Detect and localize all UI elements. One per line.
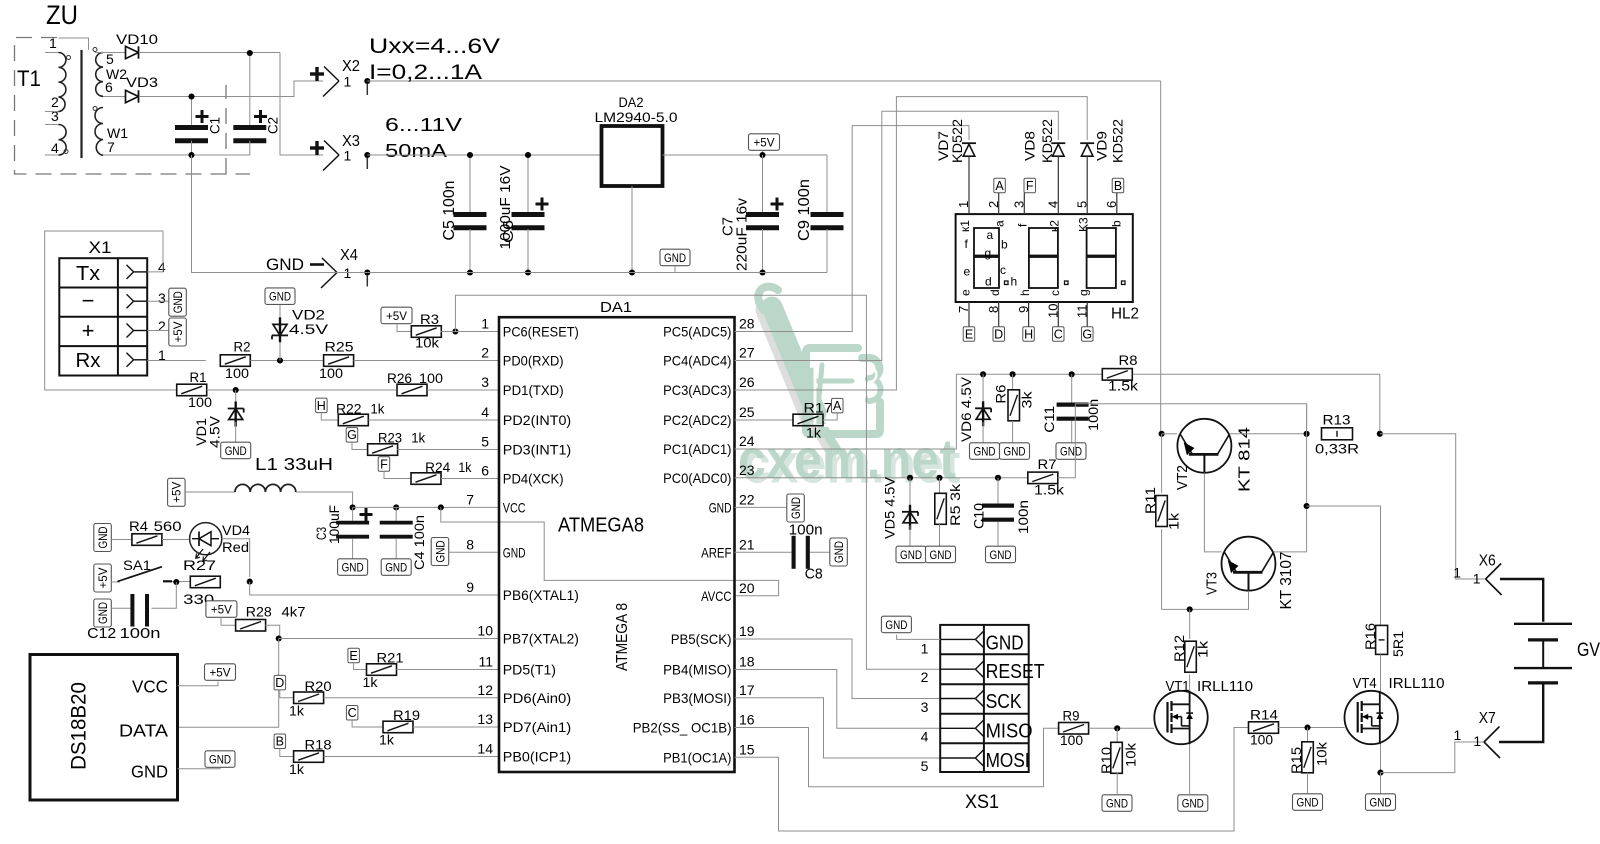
power label GND DA1 pin8 [431,538,449,566]
node C10 [995,475,1001,481]
svg-text:1k: 1k [370,402,384,417]
XS1 pin 5 MOSI [940,757,975,759]
wire X1 pin2 [147,330,169,332]
wire R25 to DA1 pin2 [354,360,499,362]
wire battery to X7 [1499,683,1543,742]
svg-text:18: 18 [739,654,755,670]
diode VD10 [126,46,139,58]
svg-text:Rx: Rx [76,350,101,372]
svg-text:IRLL110: IRLL110 [1197,678,1253,695]
capacitor C5 [469,155,471,212]
svg-text:1: 1 [1453,564,1461,580]
wire X6 to battery [1500,579,1543,622]
svg-text:3: 3 [481,374,489,390]
svg-text:14: 14 [477,741,493,757]
letter tag F above HL2 [1024,178,1036,193]
svg-text:a: a [987,228,994,242]
svg-text:E: E [965,327,973,341]
power block ZU dashed outline [15,38,251,175]
wire GND to DA1 pin8 [449,551,499,553]
svg-text:15: 15 [739,741,755,757]
svg-text:22: 22 [739,491,755,507]
power label GND below C3 [338,559,368,576]
wire GND to C12 [111,607,131,609]
svg-text:23: 23 [739,462,755,478]
wire X3 to DA2 input [367,154,601,156]
wire R13 node to X6 [1380,434,1486,579]
svg-text:KD522: KD522 [1110,119,1125,163]
svg-text:3: 3 [51,108,59,124]
svg-text:PB6(XTAL1): PB6(XTAL1) [503,587,579,603]
svg-text:GND: GND [974,444,996,458]
svg-text:R15: R15 [1289,747,1304,774]
wire DS VCC [178,681,219,685]
svg-text:e: e [959,289,973,296]
svg-text:GND: GND [225,444,247,458]
XS1 pin 4 MISO [940,727,975,729]
svg-text:10k: 10k [1123,743,1138,767]
wire node to R12 [1189,609,1191,639]
svg-text:−: − [82,288,95,313]
transistor VT4 IRLL110 [1345,691,1398,744]
letter tag A above HL2 [994,178,1006,193]
resistor R9 100 [1059,723,1089,735]
capacitor C2 [249,53,251,125]
svg-text:g: g [1077,289,1091,296]
power label GND XS1 pin1 [881,616,911,633]
wire R8 to R13 node [1133,374,1380,434]
svg-text:H: H [1024,327,1033,341]
svg-text:R4: R4 [129,519,149,534]
resistor R17 [793,414,823,426]
transistor VT1 IRLL110 [1154,691,1207,744]
svg-text:GND: GND [885,618,907,632]
wire B to R18 [280,749,294,757]
power label GND X1 pin3 [169,288,187,316]
wire AREF to C8 [735,551,792,553]
svg-text:1k: 1k [411,431,425,446]
svg-text:7: 7 [107,139,115,155]
connector X2 [310,72,324,75]
node VD5 [907,475,913,481]
regulator DA2 LM2940-5.0 [602,126,663,186]
resistor R3 [411,326,441,338]
wire VT3 collector to node [1274,404,1307,552]
power label GND below R15 [1293,794,1323,811]
wire +5V to R28 [221,617,236,625]
capacitor C1 [191,97,193,126]
wire DA1 pin22 GND [735,506,788,508]
wire R4 to LED [162,539,190,541]
svg-text:GND: GND [96,526,110,548]
svg-text:A: A [995,179,1004,193]
wire PC2 to R17 [735,419,794,421]
resistor R21 [367,664,397,676]
svg-text:VD6 4.5V: VD6 4.5V [959,377,974,442]
resistor R13 0.33R [1322,428,1353,440]
svg-text:PD4(XCK): PD4(XCK) [503,471,564,487]
power label GND below C4 [381,559,411,576]
svg-text:KD522: KD522 [1040,119,1055,163]
resistor R26 [397,384,427,396]
connector X6 [1486,564,1502,580]
svg-text:GND: GND [709,499,732,515]
svg-text:11: 11 [1074,305,1089,319]
capacitor C12 100n [130,594,134,627]
capacitor C9 [826,155,828,212]
svg-text:R24: R24 [425,460,450,475]
svg-text:10k: 10k [415,336,439,351]
wire PB4 MISO to XS1 [735,670,941,729]
svg-text:6: 6 [481,463,489,479]
svg-text:25: 25 [739,404,755,420]
node C1 top [188,93,194,99]
node VT2 emitter rail [1159,431,1165,437]
wire R26 to DA1 pin3 [427,389,499,391]
zener VD1 4.5V [235,390,237,404]
svg-text:PD5(T1): PD5(T1) [503,662,556,678]
svg-text:GND: GND [1060,444,1082,458]
resistor R8 1.5k [1102,369,1132,381]
wire G to R23 [352,442,368,450]
svg-text:10k: 10k [1314,742,1329,766]
svg-text:GND: GND [131,762,168,782]
IC DA1 ATMEGA8 [499,317,735,772]
svg-text:1.5k: 1.5k [1034,483,1064,498]
svg-text:28: 28 [739,316,755,332]
node C7 bottom [759,269,765,275]
svg-text:DA1: DA1 [600,299,632,316]
power label +5V for R3 [381,307,412,324]
svg-text:7: 7 [956,306,971,313]
svg-text:h: h [1018,289,1032,296]
svg-text:PB5(SCK): PB5(SCK) [671,631,732,647]
wire X2 rail to right side [367,80,1160,82]
svg-text:100n: 100n [1016,500,1031,534]
svg-text:B: B [276,735,284,749]
svg-text:KT 3107: KT 3107 [1278,551,1295,609]
resistor R12 1k [1185,641,1197,672]
svg-text:X4: X4 [340,247,358,264]
svg-text:g: g [985,246,992,260]
power label +5V main [749,134,780,151]
wire R2 to R25 [250,360,324,362]
svg-text:c: c [1000,263,1006,277]
svg-text:T1: T1 [17,66,41,91]
node C2 top [247,50,253,56]
svg-text:R20: R20 [305,679,332,694]
svg-text:R5 3k: R5 3k [948,484,963,526]
power label GND above VD2 [265,288,295,305]
resistor R24 [411,473,441,485]
transformer T1 primary [59,53,66,112]
svg-text:VD4: VD4 [222,523,251,538]
svg-text:R13: R13 [1323,413,1351,428]
svg-text:IRLL110: IRLL110 [1389,675,1445,692]
svg-text:cxem.net: cxem.net [738,427,956,490]
connector XS1 [940,625,1028,772]
svg-text:F: F [1026,179,1034,193]
svg-text:24: 24 [739,433,755,449]
resistor R18 [294,751,324,763]
power label GND below C10 [986,546,1016,563]
wire +5V to L1 [185,491,235,493]
svg-text:10: 10 [1046,304,1061,318]
diode VD3 [126,90,139,102]
svg-text:1: 1 [344,148,352,164]
wire VT4 source [1380,744,1382,772]
resistor R20 [294,692,324,704]
svg-text:5: 5 [106,51,114,67]
svg-text:R26: R26 [387,371,412,386]
svg-text:100: 100 [1250,733,1273,748]
svg-text:VCC: VCC [503,499,526,515]
resistor R2 [220,355,250,367]
XS1 pin 2 RESET [940,668,975,670]
power label GND below VD6 [970,443,1000,460]
svg-text:20: 20 [739,580,755,596]
svg-text:R12: R12 [1172,635,1187,662]
svg-text:AVCC: AVCC [701,588,731,604]
svg-text:VD5 4.5V: VD5 4.5V [882,477,897,539]
svg-text:VD3: VD3 [126,75,158,90]
wire DA2 output to +5V node [663,154,828,156]
HL2 digit 2 [1029,228,1058,256]
wire VD4 to R27 node [222,539,250,577]
wire T1 pin1 [45,52,59,54]
node VD2 [277,357,283,363]
wire R16 to VT4 drain [1380,655,1382,691]
svg-text:+5V: +5V [170,482,184,503]
svg-text:1k: 1k [379,733,394,748]
svg-text:100: 100 [225,366,249,381]
wire R27 node down to pin9 line [250,582,499,595]
wire VT4 source to GND [1380,773,1382,794]
letter tag D [274,675,286,690]
wire R14 to VT4 gate [1278,727,1344,729]
svg-text:1k: 1k [1166,513,1181,530]
svg-text:4: 4 [481,404,489,420]
svg-text:PD0(RXD): PD0(RXD) [503,353,564,369]
resistor R27 [190,576,220,588]
node DATA [276,635,282,641]
svg-text:GND: GND [1106,796,1128,810]
zener VD2 4.5V [279,304,281,321]
capacitor C3 100uF [352,507,354,520]
svg-text:GND: GND [986,632,1024,654]
wire VT4 source to X7 [1381,742,1485,773]
resistor R6 3k [1012,374,1014,390]
svg-text:12: 12 [477,682,493,698]
wire R17 to tag A [823,413,837,421]
svg-text:GND: GND [990,548,1012,562]
wire VT1 source to GND [1189,744,1191,794]
svg-text:VT4: VT4 [1353,675,1377,692]
wire VT2 base to VT3 emitter [1204,473,1221,552]
svg-text:4.5V: 4.5V [289,322,328,337]
wire R22 to DA1 pin4 [368,419,499,421]
HL2 bottom letter tags E D H C G [963,327,975,342]
wire X1 pin1 to R2 [147,360,206,362]
node X2 [364,78,370,84]
wire R3 to DA1 pin1 [441,331,500,333]
svg-text:+5V: +5V [754,135,775,149]
svg-text:PB0(ICP1): PB0(ICP1) [503,749,571,765]
wire R7 to VT base node [1058,404,1307,478]
svg-text:C11: C11 [1042,406,1057,433]
svg-text:R7: R7 [1038,457,1057,472]
wire T1 pin2 [45,111,59,113]
svg-text:GND: GND [789,497,803,519]
svg-text:C2: C2 [265,117,280,134]
svg-text:H: H [317,399,326,413]
svg-text:R11: R11 [1143,487,1158,514]
svg-text:R21: R21 [377,651,404,666]
diode VD7 KD522 [962,142,976,144]
diode VD8 KD522 [1051,142,1065,144]
wire PB2 to R9 gate line [735,728,1059,787]
svg-text:VD2: VD2 [292,308,325,323]
wire +5V to R3 [397,324,412,332]
resistor R10 10k [1116,728,1118,743]
svg-text:1k: 1k [289,703,304,718]
sensor DS18B20 [30,655,178,801]
svg-text:GND: GND [266,255,304,274]
svg-text:0,33R: 0,33R [1315,442,1359,457]
svg-text:X1: X1 [89,238,112,257]
resistor R4 [132,534,162,546]
svg-text:R18: R18 [305,738,332,753]
node C6 top [525,152,531,158]
svg-text:GND: GND [171,291,185,313]
svg-text:d: d [985,275,992,289]
node R10 [1114,725,1120,731]
svg-text:GND: GND [1182,796,1204,810]
wire R24 to DA1 pin6 [441,478,499,480]
svg-text:GND: GND [930,548,952,562]
node VCC branch [438,504,444,510]
svg-text:+: + [82,318,95,343]
wire VT1 drain to R12 [1189,674,1191,690]
resistor R1 [177,384,207,396]
svg-text:C5 100n: C5 100n [441,181,458,241]
svg-text:1: 1 [1454,727,1462,743]
resistor R7 1.5k [1028,472,1058,484]
svg-text:6: 6 [105,79,113,95]
power label GND below R6 [1000,443,1030,460]
svg-text:1: 1 [1473,733,1481,749]
resistor R15 10k [1307,728,1309,743]
svg-text:PB2(SS_ OC1B): PB2(SS_ OC1B) [633,720,732,736]
zener VD6 4.5V [982,374,984,404]
svg-text:b: b [1110,220,1124,227]
svg-text:h: h [1011,275,1018,289]
wire node to X3 [280,53,323,156]
zener VD5 4.5V [909,478,911,508]
power label GND below R5 [926,546,956,563]
connector X7 [1484,727,1500,743]
power label GND below R10 [1102,795,1132,812]
svg-text:2: 2 [481,345,489,361]
svg-text:+5V: +5V [210,665,231,679]
wire C12 to node [152,582,177,608]
svg-text:XS1: XS1 [965,792,999,813]
phase dots [67,56,71,60]
svg-text:6...11V: 6...11V [385,115,462,135]
svg-text:GND: GND [342,560,364,574]
svg-text:GND: GND [433,540,447,562]
XS1 pin 1 GND [940,638,975,640]
svg-text:5: 5 [481,434,489,450]
svg-text:R28: R28 [246,605,272,620]
HL2 bottom pin stubs and numbers [968,302,970,327]
svg-text:C8: C8 [805,566,823,583]
watermark cxem.net logo [738,287,961,495]
svg-text:A: A [833,399,842,413]
svg-text:F: F [380,457,388,471]
resistor R16 5R1 [1376,625,1388,654]
wire PC0 line [735,477,1029,479]
battery GV [1514,623,1572,625]
svg-text:GND: GND [209,752,231,766]
node VT4 source [1377,770,1383,776]
HL2 digit 3 [1087,228,1116,256]
svg-text:G: G [347,428,357,442]
svg-text:PB1(OC1A): PB1(OC1A) [663,749,731,765]
svg-text:L1 33uH: L1 33uH [255,454,333,474]
wire L1 to VCC line [296,492,353,507]
resistor R11 1k [1161,434,1163,493]
svg-text:GND: GND [503,544,526,560]
wire VCC line to DA1 pin7 [353,506,499,508]
svg-text:26: 26 [739,374,755,390]
wire gnd rail [192,155,368,273]
power label +5V for L1 [168,478,186,506]
svg-text:R23: R23 [378,431,402,446]
wire PC1 line to comparator divider [735,374,1103,449]
svg-text:220uF 16v: 220uF 16v [733,197,750,271]
svg-text:+5V: +5V [171,322,185,343]
node R6 [1010,371,1016,377]
svg-text:B: B [1114,179,1122,193]
svg-text:MOSI: MOSI [986,750,1030,772]
svg-text:16: 16 [739,712,755,728]
svg-text:GND: GND [664,251,686,265]
svg-text:7: 7 [466,491,474,507]
wire X1 pin3 [147,300,169,302]
wire DA2 gnd [631,186,633,273]
svg-text:R2: R2 [234,340,251,355]
display HL2 [956,214,1133,302]
svg-text:R9: R9 [1063,709,1080,724]
power label GND below VD5 [896,546,926,563]
wire rail to VT2 [1162,433,1177,435]
svg-text:Uxx=4...6V: Uxx=4...6V [369,34,501,58]
svg-text:KD522: KD522 [950,119,965,163]
power label +5V DS VCC [205,664,236,681]
svg-text:100uF: 100uF [327,505,342,544]
svg-text:ATMEGA 8: ATMEGA 8 [614,603,631,671]
wire VT3 base down to R11/R12 line [1162,591,1249,610]
wire VCC to AVCC through box [441,507,779,595]
letter tag C [346,706,358,721]
svg-text:GND: GND [96,602,110,624]
svg-text:PC5(ADC5): PC5(ADC5) [663,324,731,340]
svg-text:1: 1 [921,640,929,656]
node R13 right [1377,431,1383,437]
svg-text:RESET: RESET [986,661,1045,683]
capacitor C7 [762,155,764,212]
